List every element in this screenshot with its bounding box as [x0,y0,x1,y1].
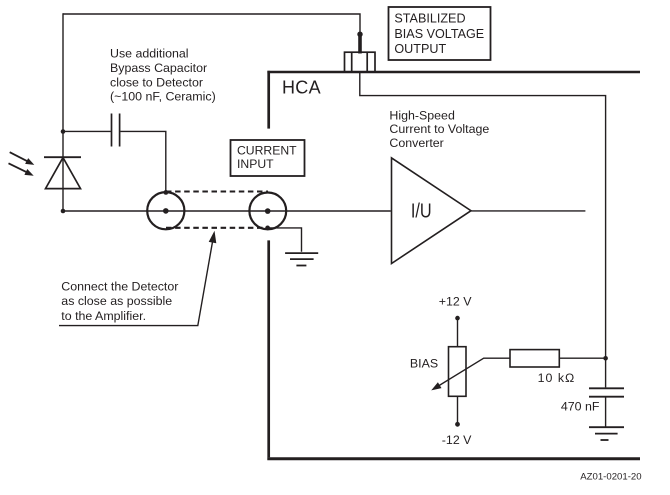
photodiode D1 cathode bar [44,156,81,158]
svg-text:AZ01-0201-20: AZ01-0201-20 [580,472,641,483]
STABILIZED BIAS VOLTAGE OUTPUT box [389,7,491,60]
svg-text:(~100 nF, Ceramic): (~100 nF, Ceramic) [110,90,216,104]
wire: resistor left lead and wiper diagonal [437,358,511,387]
callout leader line with arrow [59,231,216,326]
ground: input shield [285,253,318,265]
wire: left vertical cathode line [62,13,64,211]
node: bias RC junction [603,356,608,361]
CURRENT INPUT box [231,140,305,176]
svg-text:+12 V: +12 V [439,294,472,308]
svg-text:BIAS VOLTAGE: BIAS VOLTAGE [394,27,484,41]
note text: high-speed converter [389,109,489,150]
svg-text:I/U: I/U [411,200,432,223]
svg-text:as close as possible: as close as possible [61,294,172,308]
light arrow 1 [10,152,35,165]
-12V supply terminal [455,396,460,426]
ground: bias filter [589,427,624,440]
svg-text:Bypass Capacitor: Bypass Capacitor [110,61,207,75]
HCA enclosure outline [267,71,640,459]
svg-text:-12 V: -12 V [442,433,472,447]
BNC jack J1 CURRENT INPUT [249,193,286,230]
svg-text:10 kΩ: 10 kΩ [538,371,576,385]
svg-text:Use additional: Use additional [110,47,189,61]
svg-text:Current to Voltage: Current to Voltage [389,122,489,136]
bias plug connector body [345,32,376,73]
wire: top feedback from photodiode cathode to bias plug tip [63,14,360,33]
wire: bias feed inside HCA to RC node [360,72,606,358]
note text: bypass capacitor advice [110,47,216,104]
wire: shield to input ground [268,228,302,252]
svg-text:OUTPUT: OUTPUT [394,42,446,56]
wire: op-amp output [471,210,585,212]
svg-text:CURRENT: CURRENT [237,144,297,158]
capacitor bypass 100nF left plate [111,114,113,147]
node: photodiode anode junction [61,209,66,214]
node: coax shield bottom-right junction [265,226,270,231]
svg-text:HCA: HCA [282,78,321,98]
coax cable shield dashed top [166,190,268,192]
wire: main signal line to op-amp input [63,210,391,212]
wire: resistor right lead [559,357,604,359]
potentiometer BIAS body [449,347,467,397]
capacitor C1 470nF [589,358,624,427]
BNC plug P1 detector side [147,192,184,229]
wire: bypass capacitor right lead to coax shield top [120,131,165,190]
node: coax shield top-left junction [164,190,169,195]
svg-text:BIAS: BIAS [410,357,438,371]
light arrow 2 [9,163,34,175]
svg-text:High-Speed: High-Speed [389,109,455,123]
svg-text:to the Amplifier.: to the Amplifier. [61,309,146,323]
svg-text:470 nF: 470 nF [561,399,600,413]
svg-text:INPUT: INPUT [237,157,274,171]
resistor R1 10k body [510,350,559,367]
wire: bypass capacitor left lead [63,130,111,132]
node: bypass capacitor tap junction [61,129,66,134]
note text: connect detector close [61,279,178,323]
potentiometer wiper arrowhead [431,382,441,390]
op-amp U1 triangle [392,158,472,264]
svg-text:close to Detector: close to Detector [110,76,203,90]
coax cable shield dashed bottom [166,227,263,229]
capacitor bypass 100nF right plate [119,114,121,147]
svg-text:Converter: Converter [389,136,443,150]
svg-text:Connect the Detector: Connect the Detector [61,279,178,293]
svg-text:STABILIZED: STABILIZED [394,12,465,26]
+12V supply terminal [455,316,460,347]
photodiode D1 triangle [46,158,81,189]
